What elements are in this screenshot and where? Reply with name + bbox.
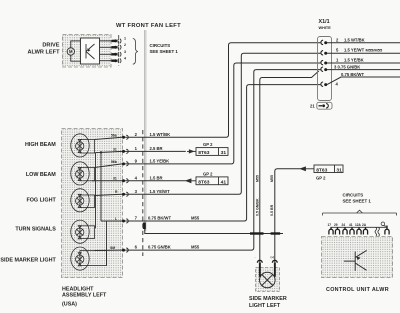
side marker pin 2	[271, 255, 278, 277]
side marker pin 1	[255, 255, 263, 277]
svg-text:CONTROL UNIT ALWR: CONTROL UNIT ALWR	[326, 287, 389, 293]
headlight pin 9 row: wire 1.5 YE/BK to X1/1 pin 1	[95, 63, 321, 168]
control unit pin numbers	[328, 223, 367, 227]
brace grouping drive module wires	[133, 39, 138, 65]
svg-text:3 0.75 GN/BK: 3 0.75 GN/BK	[334, 64, 360, 69]
transistor symbol in control unit	[344, 250, 367, 271]
svg-text:8T63: 8T63	[198, 180, 209, 186]
pin 17	[329, 227, 333, 234]
svg-text:1.5 YE/BK: 1.5 YE/BK	[344, 58, 364, 63]
svg-text:4: 4	[124, 57, 126, 61]
svg-text:56b: 56b	[111, 160, 117, 164]
pins 1-4 of drive module with wires	[100, 37, 127, 63]
svg-text:3: 3	[124, 50, 126, 54]
svg-text:8T63: 8T63	[198, 150, 209, 156]
X1/1 pin 1	[321, 58, 400, 65]
svg-text:M55: M55	[191, 216, 200, 221]
headlight pin 4 row: wire 1.5 BR to ground point	[92, 171, 228, 185]
svg-text:5: 5	[336, 48, 339, 53]
headlight pin 3 row: wire 1.5 YE/WT to X1/1 pin 5	[95, 53, 321, 196]
harness double line	[143, 30, 145, 231]
arrow to ground point box	[186, 179, 191, 183]
svg-text:4: 4	[336, 82, 339, 87]
svg-text:M55: M55	[270, 175, 274, 182]
X1/1 pin 2	[321, 37, 400, 44]
svg-text:2.5 BR: 2.5 BR	[150, 146, 163, 151]
svg-text:0.5 GN/BK: 0.5 GN/BK	[256, 198, 260, 216]
svg-text:ALWR LEFT: ALWR LEFT	[27, 50, 60, 56]
svg-text:1.5 BR: 1.5 BR	[150, 176, 163, 181]
motor M of drive ALWR	[67, 41, 80, 61]
svg-text:SM: SM	[110, 246, 115, 250]
connector X1/1 housing	[318, 19, 332, 101]
svg-text:1: 1	[124, 37, 126, 41]
bulb LOW BEAM	[71, 162, 95, 185]
svg-text:31: 31	[113, 177, 117, 181]
svg-text:0.75 BK/WT: 0.75 BK/WT	[341, 72, 364, 77]
svg-text:1.5 YE/BK: 1.5 YE/BK	[150, 159, 170, 164]
pin 24	[343, 227, 347, 234]
svg-text:31: 31	[221, 150, 227, 156]
bulb HIGH BEAM	[71, 134, 95, 157]
bulb SIDE MARKER LIGHT (in assembly)	[71, 247, 107, 270]
connector 21 below X1/1	[310, 102, 332, 109]
svg-text:CIRCUITS: CIRCUITS	[150, 43, 171, 48]
svg-text:56a: 56a	[111, 133, 117, 137]
svg-text:LOW BEAM: LOW BEAM	[26, 172, 56, 178]
svg-text:2: 2	[336, 37, 339, 42]
bulb FOG LIGHT	[71, 189, 95, 212]
svg-text:HIGH BEAM: HIGH BEAM	[25, 142, 56, 148]
control unit pin bus	[331, 226, 388, 228]
wire branch 0.5 wires to side marker splices	[145, 223, 283, 234]
svg-text:4: 4	[135, 176, 138, 181]
svg-text:1.5 WT/BK: 1.5 WT/BK	[150, 132, 171, 137]
svg-text:1: 1	[336, 58, 339, 63]
svg-text:GP 2: GP 2	[203, 171, 213, 176]
connector bracket A above control unit	[323, 210, 397, 215]
module housing DRIVE ALWR LEFT	[63, 35, 112, 68]
svg-text:FOG LIGHT: FOG LIGHT	[26, 197, 56, 203]
svg-text:CIRCUITS: CIRCUITS	[343, 192, 364, 197]
svg-text:9: 9	[135, 159, 138, 164]
squiggle wires into control unit	[375, 227, 379, 236]
pin 1 drive module	[100, 37, 127, 43]
headlight pin 2 row: wire 1.5 WT/BK to X1/1 pin 2	[95, 43, 321, 140]
svg-text:SEE SHEET 1: SEE SHEET 1	[150, 49, 179, 54]
svg-text:(+): (+)	[271, 255, 275, 259]
arrow and ground point box 8T63/31 (right)	[300, 165, 343, 181]
svg-text:31: 31	[336, 167, 342, 173]
pin 2 drive module	[100, 43, 127, 49]
wire 0.5 GN/BK from X1/1 pin 3 to side marker	[260, 71, 319, 262]
control unit pins (arches)	[329, 226, 389, 235]
drive module control symbol U	[81, 38, 100, 64]
svg-text:SIDE MARKER: SIDE MARKER	[249, 296, 287, 302]
svg-text:21: 21	[310, 104, 315, 109]
side marker bulb	[260, 272, 276, 288]
svg-text:M55: M55	[191, 245, 200, 250]
svg-text:GP 2: GP 2	[316, 176, 326, 181]
svg-text:2: 2	[135, 132, 138, 137]
svg-text:DRIVE: DRIVE	[42, 42, 59, 48]
svg-text:X1/1: X1/1	[319, 19, 330, 25]
connector boundary dashed line at headlight	[142, 130, 144, 256]
pin 3 drive module	[100, 50, 127, 56]
svg-text:1.5 YE/WT: 1.5 YE/WT	[344, 48, 365, 53]
headlight pin 7 row: wire 0.75 BK/WT to X1/1 pin 4	[101, 85, 320, 223]
svg-text:-: -	[255, 255, 256, 259]
svg-text:6: 6	[135, 245, 138, 250]
svg-text:WHITE: WHITE	[319, 26, 332, 30]
arrow to ground point box	[187, 150, 194, 153]
vertical wire labels M55 / 0.5 GN/BK / 0.5 BR	[256, 175, 274, 216]
svg-text:WT FRONT FAN LEFT: WT FRONT FAN LEFT	[116, 23, 181, 29]
svg-text:41: 41	[221, 180, 227, 186]
svg-text:(USA): (USA)	[62, 302, 77, 308]
svg-text:2: 2	[124, 43, 126, 47]
X1/1 pin 3	[321, 64, 400, 71]
svg-text:31: 31	[113, 147, 117, 151]
svg-text:TURN SIGNALS: TURN SIGNALS	[15, 226, 56, 232]
svg-text:GP 2: GP 2	[203, 142, 213, 147]
pin 2A	[363, 227, 367, 234]
svg-text:29: 29	[334, 223, 338, 227]
connector boundary dashed line at drive module	[118, 35, 120, 66]
svg-text:12A: 12A	[355, 223, 362, 227]
pin 29	[335, 227, 339, 234]
svg-text:0.5 BR: 0.5 BR	[270, 204, 274, 216]
svg-text:LIGHT LEFT: LIGHT LEFT	[249, 303, 281, 309]
headlight pin 1 row: wire 2.5 BR to ground point	[101, 142, 228, 156]
svg-text:SEE SHEET 1: SEE SHEET 1	[343, 198, 372, 203]
svg-text:1.5 WT/BK: 1.5 WT/BK	[344, 37, 365, 42]
headlight pin 6 row: wire 0.75 GN/BK to X1/1 pin 3	[95, 70, 321, 253]
side marker light housing	[256, 268, 280, 292]
svg-text:M55/M55: M55/M55	[366, 48, 383, 53]
svg-text:L: L	[115, 217, 117, 221]
bulb TURN SIGNALS	[71, 220, 95, 243]
internal ground bus of headlight assembly	[95, 151, 107, 265]
svg-text:24: 24	[342, 223, 346, 227]
svg-text:0.75 GN/BK: 0.75 GN/BK	[148, 245, 171, 250]
control unit housing	[322, 237, 393, 278]
pin 12A	[357, 227, 361, 234]
right pin	[385, 226, 389, 235]
headlight assembly housing	[62, 129, 123, 278]
svg-text:1.5 YE/WT: 1.5 YE/WT	[150, 189, 171, 194]
svg-text:0.75 BK/WT: 0.75 BK/WT	[148, 216, 171, 221]
svg-text:41: 41	[349, 223, 353, 227]
svg-text:7: 7	[135, 216, 138, 221]
X1/1 pin 4	[321, 72, 400, 87]
svg-text:8T63: 8T63	[316, 167, 327, 173]
circled symbol above right control pin	[381, 222, 385, 226]
pin 4 drive module	[100, 57, 127, 63]
svg-text:M: M	[69, 49, 73, 54]
pin 41	[350, 227, 354, 234]
splice junctions to side marker	[250, 232, 280, 234]
svg-text:ASSEMBLY LEFT: ASSEMBLY LEFT	[62, 292, 107, 298]
svg-text:SIDE MARKER LIGHT: SIDE MARKER LIGHT	[0, 258, 56, 264]
svg-text:17: 17	[328, 223, 332, 227]
svg-text:3: 3	[135, 189, 138, 194]
wire 0.5 BR side marker to ground point	[275, 169, 301, 262]
svg-text:M55: M55	[256, 175, 260, 182]
svg-text:1: 1	[135, 146, 138, 151]
X1/1 pin 5	[321, 48, 400, 55]
svg-text:2A: 2A	[362, 223, 367, 227]
